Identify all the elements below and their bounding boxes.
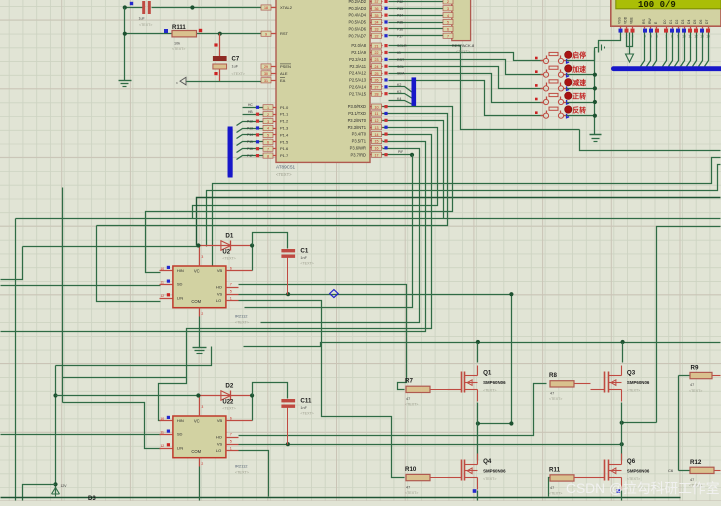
svg-text:P35: P35 [397, 21, 403, 25]
wire U22 VS line [239, 442, 624, 446]
wire U2 LO to R10 [239, 301, 405, 478]
svg-text:12: 12 [160, 444, 164, 448]
U1 reference label AT89C51 [276, 165, 296, 178]
wire R12 right [715, 470, 721, 472]
svg-text:7: 7 [230, 433, 232, 437]
wire Q4 source bottom [477, 491, 479, 501]
U1 P0 pins right [371, 0, 388, 38]
svg-text:P17: P17 [247, 154, 253, 158]
svg-text:RST: RST [280, 31, 289, 36]
wire C1 bottom to VS [287, 258, 289, 295]
wire U22 COM down [199, 467, 201, 501]
svg-text:27: 27 [375, 86, 379, 90]
diode D2 [199, 382, 253, 410]
svg-text:<TEXT>: <TEXT> [139, 23, 152, 27]
svg-text:16: 16 [375, 147, 379, 151]
svg-text:P2.3/A11: P2.3/A11 [349, 64, 366, 69]
svg-text:1: 1 [230, 447, 232, 451]
svg-text:47: 47 [406, 397, 410, 401]
svg-text:1: 1 [267, 106, 269, 110]
svg-text:10: 10 [160, 267, 164, 271]
wire VCC vertical to ground [124, 8, 126, 81]
wire P0 bus to RESPACK [389, 2, 445, 36]
svg-text:5: 5 [267, 134, 269, 138]
svg-text:<TEXT>: <TEXT> [235, 321, 250, 325]
svg-text:VS: VS [217, 441, 223, 446]
wire rail E drop to U2 LIN [97, 226, 161, 302]
power terminal LCD VDD arrow [626, 33, 634, 63]
wire Q3 drain drop [622, 343, 624, 363]
svg-text:6: 6 [230, 416, 232, 420]
ground GND1 top-left [119, 81, 132, 87]
svg-text:P16: P16 [247, 147, 253, 151]
svg-text:P1.0: P1.0 [280, 105, 289, 110]
svg-text:P1.2: P1.2 [280, 119, 289, 124]
wire R9 feed [679, 375, 690, 377]
U1 P3 pins right [371, 104, 388, 157]
RP1 pins [443, 0, 453, 38]
svg-text:18: 18 [264, 6, 268, 10]
terminal EA arrow [176, 77, 186, 85]
transistor Q4 SMP60N06 [448, 454, 507, 490]
resistor R7 [405, 378, 430, 407]
svg-text:<TEXT>: <TEXT> [405, 403, 418, 407]
svg-text:P2.4/A12: P2.4/A12 [349, 71, 367, 76]
wire leg A mid vertical [477, 403, 479, 461]
ground LCD sideways [595, 43, 605, 53]
svg-text:P1.3: P1.3 [280, 126, 289, 131]
svg-text:<TEXT>: <TEXT> [232, 72, 245, 76]
resistor R10 [405, 466, 430, 495]
svg-text:U22: U22 [222, 399, 234, 405]
wire rail E [97, 114, 448, 226]
svg-text:P0.7/AD7: P0.7/AD7 [348, 33, 366, 38]
wire cross link mid-left [56, 347, 212, 366]
ground U2 COM [193, 317, 207, 354]
wire R10 to Q4 gate [431, 477, 448, 479]
svg-text:P2.2/A10: P2.2/A10 [349, 57, 367, 62]
svg-text:正转: 正转 [572, 92, 586, 101]
svg-text:P3.5/T1: P3.5/T1 [352, 139, 367, 144]
svg-text:C1: C1 [300, 248, 308, 255]
svg-text:R7: R7 [405, 378, 413, 385]
svg-text:VB: VB [217, 418, 223, 423]
svg-text:PIF: PIF [398, 150, 403, 154]
svg-text:VC: VC [194, 419, 200, 424]
svg-text:11: 11 [160, 281, 164, 285]
node Q4 marker [473, 489, 477, 493]
node Q6 marker [617, 489, 621, 493]
net labels P32-P37 [397, 0, 403, 38]
wire U22 HIN vertical source [62, 188, 64, 403]
RP1 label RESPACK-8 [452, 43, 475, 54]
wire LCD VSS to ground [599, 33, 621, 44]
svg-text:P12: P12 [247, 119, 253, 123]
svg-text:COM: COM [191, 299, 201, 304]
svg-text:P3.7/RD: P3.7/RD [351, 152, 367, 157]
button SW4 正转 [535, 92, 586, 105]
svg-text:<TEXT>: <TEXT> [222, 407, 235, 411]
svg-text:HO: HO [216, 284, 222, 289]
svg-text:29: 29 [264, 65, 268, 69]
svg-text:P3.1/TXD: P3.1/TXD [348, 111, 366, 116]
wire K3 to bus [389, 94, 413, 99]
svg-text:SMP60N06: SMP60N06 [483, 468, 506, 473]
wire rail D [16, 218, 721, 220]
U2 left pins [160, 266, 173, 299]
wire C7 bottom to EA line [187, 69, 265, 82]
resistor R111 [164, 25, 202, 51]
svg-text:K2: K2 [397, 83, 401, 87]
svg-text:SMP60N06: SMP60N06 [627, 468, 650, 473]
wire R11 feed from bottom rail [549, 478, 551, 497]
wire P3.4 loop [187, 135, 432, 378]
resistor pack RP1 RESPACK-8 body [452, 0, 471, 41]
wire 12V branch to U22 VC node [56, 395, 199, 397]
wire K2 to bus [389, 87, 413, 93]
svg-text:24: 24 [375, 65, 379, 69]
node VS diamond [330, 290, 339, 298]
svg-text:加速: 加速 [571, 64, 586, 73]
svg-text:VEE: VEE [630, 16, 634, 24]
LCD1 screen [616, 0, 721, 9]
wire P1.1 net HB [243, 110, 265, 115]
svg-text:6: 6 [447, 28, 449, 32]
svg-text:RS: RS [642, 19, 646, 24]
node D2 cathode junction [250, 393, 254, 397]
svg-text:1nF: 1nF [300, 256, 307, 260]
wire R11 to Q6 gate [575, 477, 591, 479]
svg-text:13: 13 [375, 126, 379, 130]
svg-text:28: 28 [375, 92, 379, 96]
svg-text:D0: D0 [663, 20, 667, 24]
svg-text:30: 30 [264, 72, 268, 76]
svg-text:P0.2/AD2: P0.2/AD2 [348, 0, 366, 4]
svg-text:P3.6/WR: P3.6/WR [350, 145, 366, 150]
wire nested rail B [207, 165, 721, 247]
wire U22 HIN feed [63, 378, 187, 421]
svg-text:<TEXT>: <TEXT> [235, 471, 250, 475]
svg-text:5: 5 [447, 21, 449, 25]
svg-text:AT89C51: AT89C51 [276, 165, 296, 170]
wire LCD control lines to bus [641, 33, 657, 67]
wire nested rail A [213, 158, 721, 267]
watermark CSDN [566, 480, 720, 496]
svg-text:<TEXT>: <TEXT> [276, 172, 292, 177]
wire bottom dark edge [1, 497, 681, 499]
bus right vertical blue [412, 77, 417, 106]
wire upper rail to drains [244, 343, 721, 347]
LCD LCD1 body [611, 0, 721, 26]
wire Q6 source bottom [621, 491, 623, 501]
svg-text:RESPACK-8: RESPACK-8 [452, 43, 475, 48]
wire U22 LO down [239, 451, 269, 497]
svg-text:P1.7: P1.7 [280, 153, 289, 158]
svg-text:P3.3/INT1: P3.3/INT1 [348, 125, 367, 130]
svg-text:1uF: 1uF [232, 65, 239, 69]
svg-text:10k: 10k [174, 42, 180, 46]
U2 right pins [226, 266, 239, 300]
svg-text:R8: R8 [549, 372, 557, 379]
svg-text:LIN: LIN [177, 445, 183, 450]
svg-text:P3.0/RXD: P3.0/RXD [348, 104, 366, 109]
wire P3.7 loop down [245, 155, 413, 308]
LCD1 pin squares [619, 29, 711, 39]
svg-text:D5: D5 [693, 20, 697, 24]
U1 left pin labels [280, 5, 293, 158]
wire P2.1 to button1 [389, 53, 544, 61]
svg-text:D1: D1 [669, 20, 673, 24]
svg-text:P14: P14 [247, 133, 253, 137]
capacitor C7 [213, 43, 245, 76]
svg-text:32: 32 [375, 34, 379, 38]
svg-text:12V: 12V [61, 484, 68, 488]
wire P2.4 to button4 [389, 74, 544, 103]
svg-text:D3: D3 [681, 20, 685, 24]
svg-text:P3.2/INT0: P3.2/INT0 [348, 118, 367, 123]
svg-text:<TEXT>: <TEXT> [456, 50, 471, 54]
svg-text:SMP60N06: SMP60N06 [483, 380, 506, 385]
U1 left pins PSEN ALE EA [261, 64, 277, 83]
svg-text:6: 6 [267, 141, 269, 145]
svg-text:25: 25 [375, 72, 379, 76]
svg-text:P32: P32 [397, 0, 403, 4]
wire P3.2 to button5 [389, 81, 544, 116]
svg-text:<TEXT>: <TEXT> [549, 491, 562, 495]
svg-text:12: 12 [375, 119, 379, 123]
wire leg B output node [620, 421, 657, 425]
svg-text:4: 4 [447, 14, 449, 18]
svg-text:<TEXT>: <TEXT> [627, 389, 640, 393]
svg-text:7: 7 [267, 147, 269, 151]
capacitor C6 electrolytic top-left [130, 1, 153, 27]
svg-text:17: 17 [375, 153, 379, 157]
svg-text:P36: P36 [397, 27, 403, 31]
svg-text:COM: COM [191, 449, 201, 454]
svg-text:31: 31 [264, 79, 268, 83]
wire rail D left drop [15, 219, 17, 501]
svg-text:EA: EA [280, 78, 286, 83]
svg-text:PSEN: PSEN [280, 64, 291, 69]
svg-text:P37: P37 [397, 34, 403, 38]
wire reset node top [152, 7, 265, 9]
wire P1.2-P1.7 to left bus [237, 122, 265, 160]
svg-text:<TEXT>: <TEXT> [405, 491, 418, 495]
svg-text:5: 5 [230, 440, 232, 444]
svg-text:K4: K4 [397, 97, 401, 101]
button SW3 减速 [535, 78, 586, 91]
svg-text:LO: LO [216, 298, 221, 303]
op-amp U1 AT89C51 MCU body [276, 0, 370, 162]
svg-text:P2.7/A15: P2.7/A15 [349, 91, 367, 96]
ground buttons common [590, 135, 602, 142]
svg-text:<TEXT>: <TEXT> [483, 389, 496, 393]
wire RST to C7 [219, 34, 221, 57]
wire P3.6 loop [261, 149, 420, 323]
svg-text:23: 23 [375, 58, 379, 62]
U1 right pin labels [348, 0, 367, 157]
wire P3.5 loop [1, 142, 426, 332]
svg-text:<TEXT>: <TEXT> [549, 397, 562, 401]
svg-text:P0.6/AD6: P0.6/AD6 [348, 26, 366, 31]
net labels P12-P17 [247, 119, 253, 157]
button SW5 反转 [535, 105, 586, 118]
transistor Q1 SMP60N06 [448, 366, 507, 402]
wire right edge to leg B output [657, 227, 721, 423]
svg-text:P0.5/AD5: P0.5/AD5 [348, 20, 366, 25]
wire D1 cathode to C1 [253, 233, 288, 249]
svg-text:D1: D1 [225, 232, 233, 239]
svg-text:3: 3 [447, 7, 449, 11]
svg-text:<TEXT>: <TEXT> [300, 262, 313, 266]
U2 label IR2112 [235, 314, 250, 325]
wire 12V feed vertical [53, 366, 57, 495]
wire U2 VB to bootstrap diode [239, 246, 253, 271]
wire rail F to U2 HIN [146, 107, 453, 273]
capacitor C11 [281, 398, 313, 416]
svg-text:RW: RW [648, 18, 652, 24]
svg-text:VB: VB [217, 268, 223, 273]
wire LCD data lines to bus [663, 33, 709, 67]
svg-text:47: 47 [550, 392, 554, 396]
wire leg B mid vertical [621, 403, 623, 461]
net labels K2 K3 K4 [397, 83, 401, 101]
svg-text:37: 37 [375, 0, 379, 4]
wire U22 VB to bootstrap diode [239, 396, 253, 421]
node D1 cathode junction [250, 243, 254, 247]
svg-text:P1.1: P1.1 [280, 112, 289, 117]
svg-text:2: 2 [267, 113, 269, 117]
svg-text:P34: P34 [397, 14, 403, 18]
wire P1.0 net HC [243, 103, 265, 108]
svg-text:<TEXT>: <TEXT> [172, 47, 185, 51]
node RST junctions [123, 32, 222, 36]
U1 P2 pins right [371, 43, 388, 96]
U22 COM bottom pin [200, 458, 204, 467]
svg-text:P0.3/AD3: P0.3/AD3 [348, 6, 366, 11]
svg-text:XTAL2: XTAL2 [280, 5, 293, 10]
svg-text:Q3: Q3 [627, 370, 636, 377]
op-amp U22 IR2112 body [173, 416, 226, 458]
svg-text:P1.5: P1.5 [280, 139, 289, 144]
svg-text:P1.4: P1.4 [280, 132, 289, 137]
svg-text:反转: 反转 [572, 105, 586, 114]
svg-text:R9: R9 [691, 365, 699, 372]
LCD1 screen text [638, 0, 676, 10]
wire buttons top to sideways ground [594, 48, 596, 61]
svg-text:10: 10 [375, 105, 379, 109]
svg-text:VS: VS [217, 291, 223, 296]
svg-text:IR2112: IR2112 [235, 314, 248, 319]
power terminal 12V [52, 484, 68, 497]
wire U2 SD feed [1, 285, 161, 287]
node D1 anode junction [196, 243, 200, 247]
svg-text:15: 15 [375, 140, 379, 144]
svg-text:VSS: VSS [618, 16, 622, 24]
diode D1 [199, 232, 253, 260]
svg-text:VDD: VDD [624, 16, 628, 24]
svg-text:1uF: 1uF [139, 17, 146, 21]
svg-text:HIN: HIN [177, 268, 184, 273]
svg-text:LO: LO [216, 448, 221, 453]
svg-text:P2.5/A13: P2.5/A13 [349, 78, 367, 83]
svg-text:Q1: Q1 [483, 370, 492, 377]
svg-text:P33: P33 [397, 7, 403, 11]
svg-text:RST: RST [397, 58, 405, 62]
svg-text:3: 3 [267, 120, 269, 124]
U1 left pins XTAL2 RST [261, 5, 277, 37]
wire 12V corner to bottom [23, 485, 56, 501]
svg-text:R10: R10 [405, 466, 417, 473]
svg-text:34: 34 [375, 21, 379, 25]
svg-text:HB: HB [248, 110, 253, 114]
svg-text:2: 2 [447, 0, 449, 4]
svg-text:11: 11 [375, 112, 379, 116]
wire U22 SD feed [1, 434, 161, 436]
wire R7 to Q1 gate [431, 389, 448, 391]
wire P2.2 to button2 [389, 60, 544, 75]
node reset-top junction [123, 5, 195, 9]
svg-text:2: 2 [201, 312, 203, 316]
wire U22 LIN feed [63, 403, 161, 449]
svg-text:D4: D4 [687, 20, 691, 24]
LCD1 pin name labels [618, 16, 710, 24]
svg-text:6: 6 [230, 266, 232, 270]
svg-text:11: 11 [160, 431, 164, 435]
svg-text:7: 7 [447, 34, 449, 38]
node drain rail junctions [476, 340, 625, 344]
wire button column feed vertical [580, 130, 721, 151]
svg-text:C11: C11 [300, 398, 312, 405]
wire nested rail C dark [197, 198, 721, 246]
bus LCD horizontal blue [611, 66, 721, 71]
U22 right pins [226, 416, 239, 450]
svg-text:<TEXT>: <TEXT> [300, 412, 313, 416]
wire stray corner left [1, 247, 23, 280]
wire R12 feed vertical [679, 376, 690, 471]
svg-text:35: 35 [375, 14, 379, 18]
wire R9 right [713, 375, 721, 377]
svg-text:Q6: Q6 [627, 458, 636, 465]
svg-text:SDA: SDA [397, 72, 405, 76]
svg-text:P2.1/A9: P2.1/A9 [351, 50, 366, 55]
wire U2 VS line [239, 292, 514, 423]
svg-text:SMP60N06: SMP60N06 [627, 380, 650, 385]
svg-text:SCL: SCL [397, 65, 404, 69]
wire P2.0 SCLR to right edge [389, 46, 580, 130]
svg-text:<TEXT>: <TEXT> [483, 477, 496, 481]
svg-text:22: 22 [375, 51, 379, 55]
svg-text:SCLR: SCLR [397, 44, 407, 48]
svg-text:HIN: HIN [177, 418, 184, 423]
svg-text:D6: D6 [699, 20, 703, 24]
svg-text:2: 2 [201, 462, 203, 466]
U22 left pins [160, 416, 173, 449]
svg-text:R11: R11 [549, 466, 561, 473]
wire P3.7 output [383, 150, 415, 157]
svg-text:P1.6: P1.6 [280, 146, 289, 151]
svg-text:3: 3 [201, 405, 203, 409]
svg-text:47: 47 [550, 486, 554, 490]
op-amp U2 IR2112 body [173, 266, 226, 308]
svg-text:CSDN @拉勾科研工作室: CSDN @拉勾科研工作室 [566, 480, 720, 496]
svg-text:12: 12 [160, 294, 164, 298]
svg-text:IR2112: IR2112 [235, 464, 248, 469]
svg-text:C7: C7 [232, 57, 240, 63]
resistor R9 [689, 365, 712, 394]
svg-text:7: 7 [230, 283, 232, 287]
svg-text:D2: D2 [675, 20, 679, 24]
